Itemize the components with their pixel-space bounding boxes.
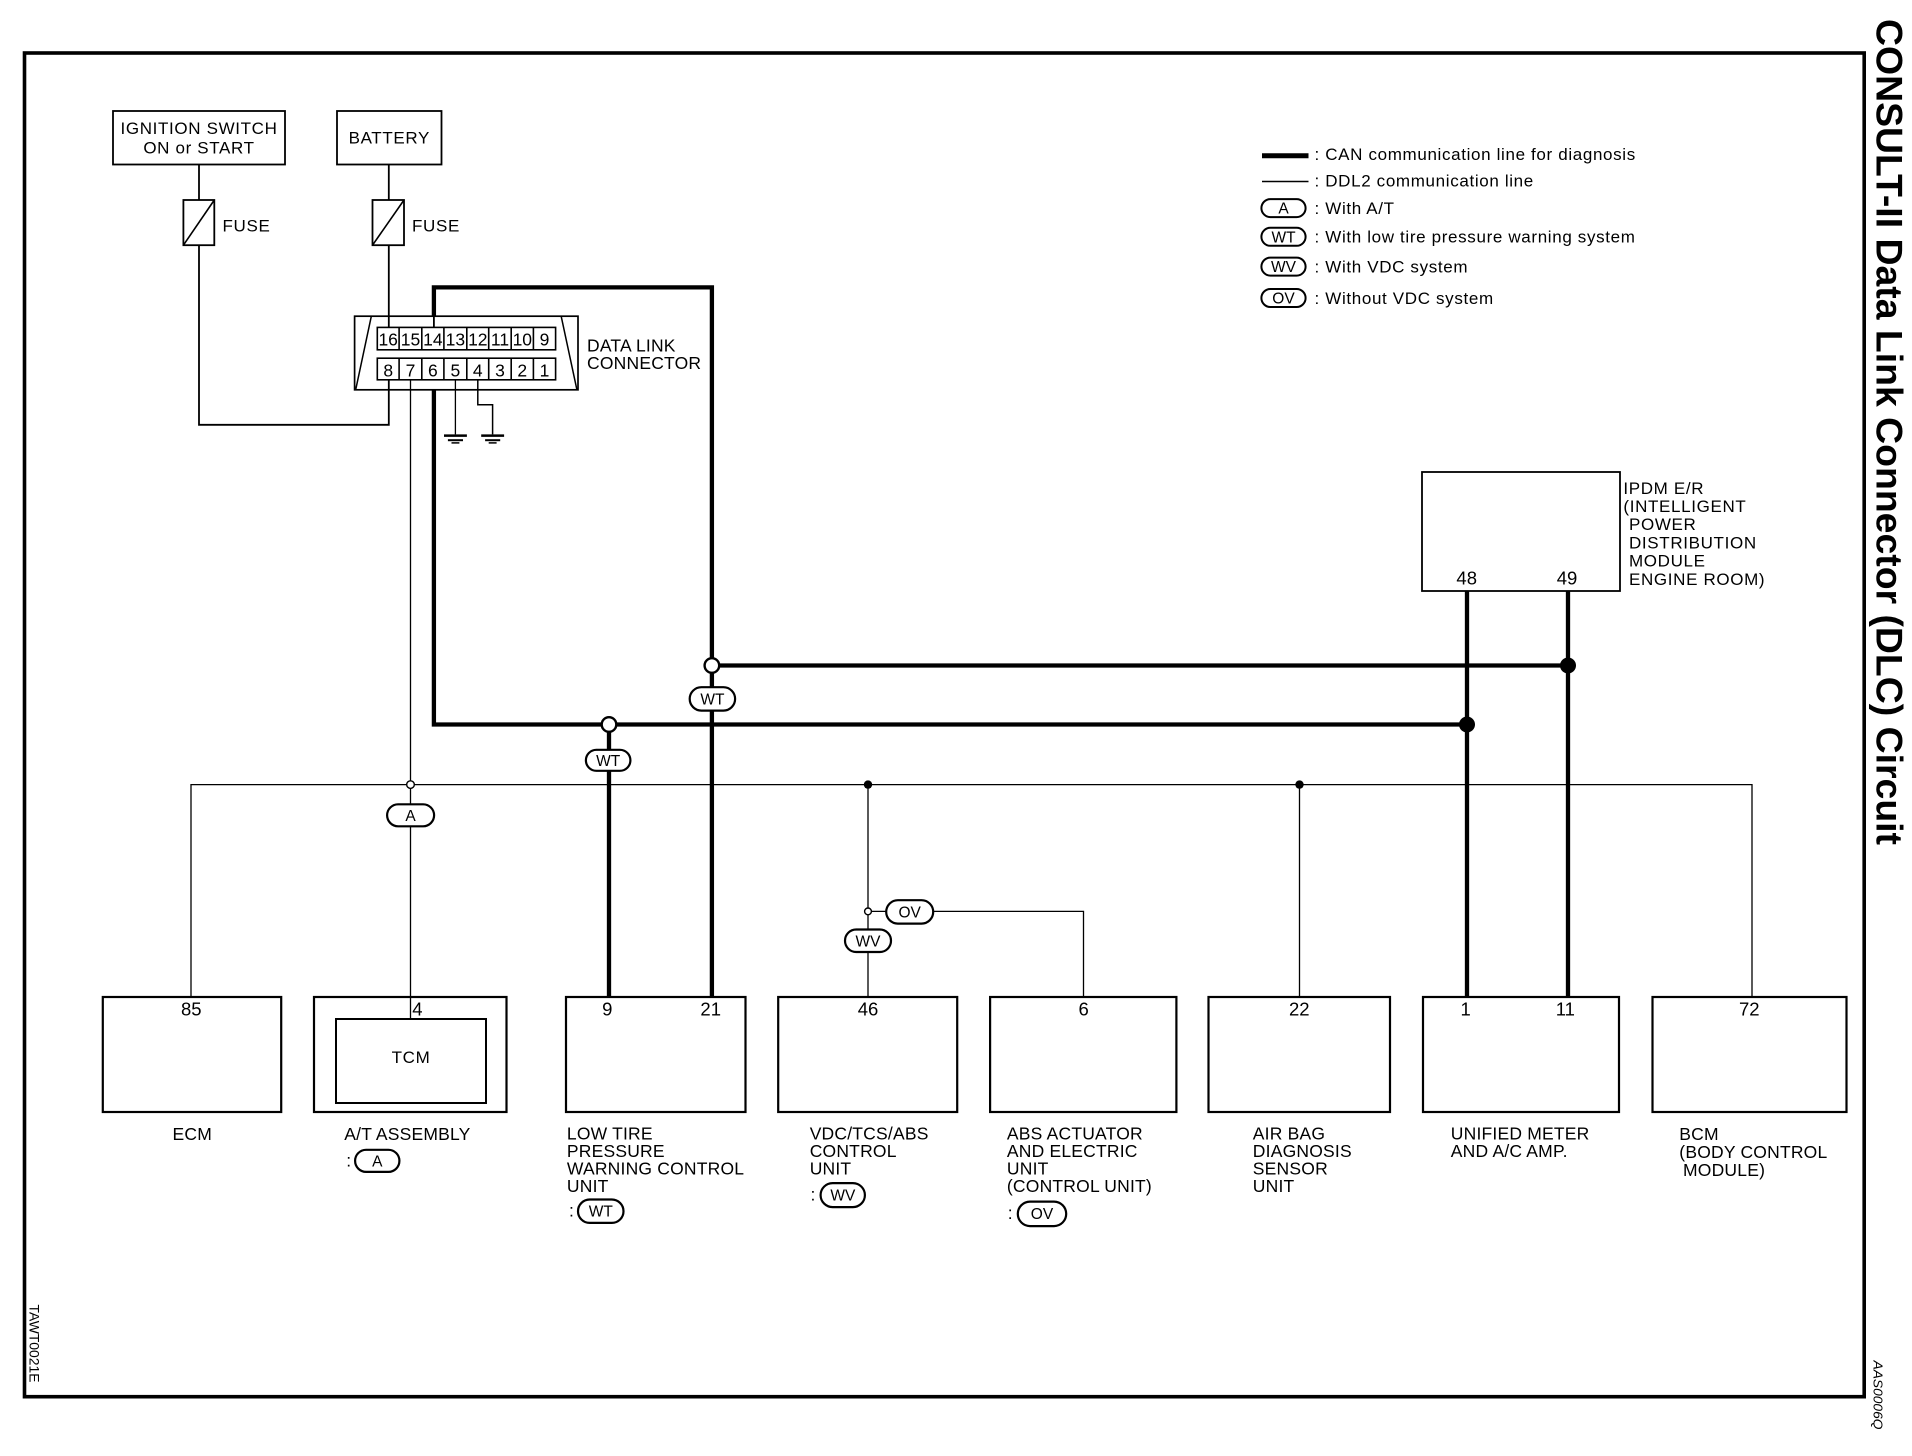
svg-text::: : xyxy=(1008,1203,1013,1223)
wire: branch to ABS actuator pin 6 (OV) xyxy=(868,911,1084,997)
junction dot at unified meter pin 1 column xyxy=(1459,717,1475,733)
svg-text:WT: WT xyxy=(1271,229,1296,246)
svg-text:A: A xyxy=(1278,201,1289,218)
svg-text:OV: OV xyxy=(898,904,921,921)
svg-text::: : xyxy=(569,1201,574,1221)
svg-text:WT: WT xyxy=(700,691,725,708)
DLC pin row 8-1 xyxy=(377,358,555,380)
svg-text:A: A xyxy=(372,1153,383,1170)
DLC pin row 16-9 xyxy=(377,327,555,349)
svg-text:85: 85 xyxy=(181,998,202,1019)
svg-text:8: 8 xyxy=(383,360,393,380)
svg-text:2: 2 xyxy=(517,360,527,380)
svg-text:CONNECTOR: CONNECTOR xyxy=(587,353,701,373)
tag: with A/T xyxy=(346,1150,399,1172)
wire: fuse F1 to DLC pin 8 xyxy=(199,245,389,425)
svg-text::: : xyxy=(346,1150,351,1170)
legend: oval WV xyxy=(1261,258,1305,277)
svg-text:ENGINE ROOM): ENGINE ROOM) xyxy=(1629,570,1765,589)
svg-text:UNIT: UNIT xyxy=(810,1159,852,1179)
box: unified meter and A/C amp xyxy=(1423,997,1619,1112)
svg-text:15: 15 xyxy=(401,329,420,349)
wire: branch to AIR BAG pin 22 xyxy=(1299,785,1301,997)
svg-text:6: 6 xyxy=(1079,998,1089,1019)
tag: with low tire pressure warning system xyxy=(569,1200,624,1223)
svg-text:49: 49 xyxy=(1557,568,1578,589)
svg-text:A: A xyxy=(405,808,416,825)
svg-text:14: 14 xyxy=(423,329,443,349)
svg-text:10: 10 xyxy=(513,329,533,349)
legend: oval WT xyxy=(1261,228,1305,247)
CAN communication line: DLC pin 14 to LOW TIRE pin 21 xyxy=(434,287,712,997)
svg-text:TAWT0021E: TAWT0021E xyxy=(27,1305,43,1383)
open junction circle on CAN horizontal (WT) xyxy=(602,717,617,732)
svg-text:(CONTROL UNIT): (CONTROL UNIT) xyxy=(1007,1176,1152,1196)
svg-text:IGNITION SWITCH: IGNITION SWITCH xyxy=(120,119,277,138)
svg-text:1: 1 xyxy=(1460,998,1470,1019)
svg-text:OV: OV xyxy=(1031,1206,1054,1223)
junction dot at unified meter pin 11 column xyxy=(1560,658,1576,674)
svg-text:4: 4 xyxy=(412,998,422,1019)
svg-text:7: 7 xyxy=(406,360,416,380)
open junction circle on DDL2 (A) xyxy=(407,781,415,789)
oval tag A on A/T line xyxy=(387,804,434,826)
tag: without VDC system xyxy=(1008,1202,1066,1227)
box: TCM xyxy=(336,1019,486,1103)
junction dot at VDC column xyxy=(864,780,872,788)
box: ECM xyxy=(103,997,281,1112)
svg-text:MODULE): MODULE) xyxy=(1683,1160,1765,1180)
DLC pin numbers 16-9 xyxy=(378,329,549,349)
svg-text:21: 21 xyxy=(700,998,721,1019)
box: ignition switch xyxy=(113,111,285,165)
svg-text:IPDM E/R: IPDM E/R xyxy=(1623,479,1704,498)
legend: CAN line sample xyxy=(1262,153,1309,158)
svg-text:(INTELLIGENT: (INTELLIGENT xyxy=(1623,497,1746,516)
svg-text:12: 12 xyxy=(468,329,487,349)
svg-text:WV: WV xyxy=(856,933,882,950)
svg-text:: With VDC system: : With VDC system xyxy=(1315,257,1469,276)
DDL2 communication bus: ECM to BCM xyxy=(191,785,1752,997)
wire: battery to fuse F2 xyxy=(388,165,390,201)
svg-text:(BODY CONTROL: (BODY CONTROL xyxy=(1679,1142,1827,1162)
svg-text:OV: OV xyxy=(1272,291,1295,308)
svg-text:46: 46 xyxy=(858,998,879,1019)
svg-text:11: 11 xyxy=(491,329,509,349)
svg-text:4: 4 xyxy=(473,360,483,380)
junction dot at air bag column xyxy=(1295,780,1303,788)
CAN communication line: DLC pin 6 to junction at unified meter column xyxy=(434,380,1467,725)
wire stub: battery into pin 16 xyxy=(388,316,390,328)
wire: branch to VDC/TCS/ABS pin 46 xyxy=(867,785,869,997)
fuse F1 xyxy=(183,200,270,245)
box: low tire pressure warning control unit xyxy=(566,997,746,1112)
svg-text:: CAN communication line for d: : CAN communication line for diagnosis xyxy=(1315,145,1636,164)
svg-text:A/T ASSEMBLY: A/T ASSEMBLY xyxy=(344,1124,470,1144)
box: BCM xyxy=(1653,997,1847,1112)
svg-text:FUSE: FUSE xyxy=(223,216,271,235)
svg-text:DISTRIBUTION: DISTRIBUTION xyxy=(1629,533,1757,552)
oval tag WT on pin 21 line xyxy=(690,687,735,710)
svg-text:5: 5 xyxy=(451,360,461,380)
CAN branch: junction to LOW TIRE pin 9 xyxy=(607,725,611,998)
data link connector shell xyxy=(355,316,578,390)
legend: DDL2 line sample xyxy=(1262,181,1309,183)
wire: fuse F2 to DLC pin 16 xyxy=(388,245,390,327)
tag: with VDC system xyxy=(811,1183,865,1207)
box: ABS actuator and electric unit xyxy=(990,997,1176,1112)
svg-text:UNIT: UNIT xyxy=(567,1176,609,1196)
ground G1 xyxy=(444,436,467,443)
box: IPDM E/R xyxy=(1422,472,1620,591)
svg-text:UNIT: UNIT xyxy=(1253,1176,1295,1196)
svg-text:: With A/T: : With A/T xyxy=(1315,199,1395,218)
svg-text:72: 72 xyxy=(1739,998,1760,1019)
svg-text:WV: WV xyxy=(1271,259,1297,276)
open junction circle on VDC branch (WV/OV) xyxy=(865,908,872,915)
DLC pin numbers 8-1 xyxy=(383,360,549,380)
svg-text:1: 1 xyxy=(540,360,550,380)
svg-text:FUSE: FUSE xyxy=(412,216,460,235)
svg-text:13: 13 xyxy=(446,329,465,349)
svg-text:9: 9 xyxy=(602,998,612,1019)
wire stubs below pins 8,7,6,5,4 xyxy=(389,380,478,390)
svg-text:9: 9 xyxy=(540,329,550,349)
wire: DLC pin 5 to ground xyxy=(454,380,456,435)
wire: DLC pin 4 to ground xyxy=(478,380,493,435)
svg-text:6: 6 xyxy=(428,360,438,380)
svg-text:11: 11 xyxy=(1556,998,1575,1019)
svg-text:ECM: ECM xyxy=(173,1124,213,1144)
oval tag WT on pin 9 branch xyxy=(586,750,631,771)
legend: oval OV xyxy=(1261,289,1305,308)
svg-text:MODULE: MODULE xyxy=(1629,552,1706,571)
svg-text:CONSULT-II Data Link Connector: CONSULT-II Data Link Connector (DLC) Cir… xyxy=(1869,19,1910,845)
svg-text:: Without VDC system: : Without VDC system xyxy=(1315,289,1494,308)
CAN line: IPDM pin 49 to UNIFIED METER pin 11 xyxy=(1566,591,1570,997)
svg-text:WT: WT xyxy=(589,1204,614,1221)
wire: ignition switch to fuse F1 xyxy=(198,165,200,201)
open junction circle on CAN vertical (WT) xyxy=(705,658,720,673)
svg-text:TCM: TCM xyxy=(392,1048,431,1067)
svg-text:16: 16 xyxy=(378,329,397,349)
svg-text:22: 22 xyxy=(1289,998,1310,1019)
CAN line: IPDM pin 48 to UNIFIED METER pin 1 xyxy=(1465,591,1469,997)
box: air bag diagnosis sensor unit xyxy=(1209,997,1391,1112)
svg-text:AND A/C AMP.: AND A/C AMP. xyxy=(1451,1141,1568,1161)
svg-text:POWER: POWER xyxy=(1629,515,1696,534)
box: battery xyxy=(337,111,442,165)
svg-text:AAS0006Q: AAS0006Q xyxy=(1871,1359,1886,1429)
ground G2 xyxy=(481,436,504,443)
svg-text:BATTERY: BATTERY xyxy=(349,129,430,148)
svg-text::: : xyxy=(811,1185,816,1205)
fuse F2 xyxy=(373,200,460,245)
svg-text:WT: WT xyxy=(596,753,621,770)
wire stub: CAN into pin 14 xyxy=(433,316,435,328)
svg-text:WV: WV xyxy=(830,1188,856,1205)
svg-text:: With low tire pressure warni: : With low tire pressure warning system xyxy=(1315,228,1636,247)
legend: oval A xyxy=(1261,199,1305,218)
DDL2 line: DLC pin 7 to A/T assembly TCM xyxy=(410,380,412,1019)
oval tag WV on VDC line xyxy=(845,930,891,953)
box: A/T assembly xyxy=(314,997,507,1112)
label: IPDM E/R xyxy=(1623,479,1765,589)
oval tag OV on ABS branch xyxy=(886,900,933,923)
svg-text:48: 48 xyxy=(1456,568,1477,589)
svg-text:3: 3 xyxy=(495,360,505,380)
svg-text:: DDL2 communication line: : DDL2 communication line xyxy=(1315,172,1534,191)
CAN communication line: branch to IPDM pin 49 column xyxy=(712,663,1568,667)
box: VDC/TCS/ABS control unit xyxy=(778,997,957,1112)
svg-text:ON or START: ON or START xyxy=(143,138,254,157)
